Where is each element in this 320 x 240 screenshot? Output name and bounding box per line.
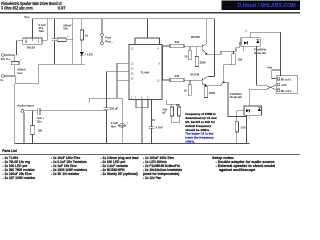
wire Q3 drain top [249, 32, 251, 37]
svg-text:10: 10 [184, 54, 188, 58]
svg-text:Free: Free [105, 35, 111, 39]
parts divider [0, 154, 300, 156]
svg-text:Tant: Tant [39, 29, 45, 33]
fuse F1 [11, 62, 19, 65]
wire free pins drop [101, 19, 103, 34]
svg-text:diode tab: diode tab [230, 95, 242, 99]
svg-text:against oscilloscope: against oscilloscope [219, 168, 255, 172]
mosfet Q3 box [241, 38, 260, 47]
wire crossover b [266, 85, 277, 90]
wire Q3 source down [257, 46, 266, 85]
svg-text:5 Ohm 35Z abc.com: 5 Ohm 35Z abc.com [1, 6, 33, 11]
capacitor C6 [118, 124, 125, 127]
svg-text:F1x0504x: F1x0504x [254, 47, 267, 51]
svg-text:diode tab: diode tab [254, 51, 266, 55]
svg-text:- 1x Sturdy DE (optional): - 1x Sturdy DE (optional) [101, 172, 138, 176]
wire Vcc rail [33, 19, 215, 38]
capacitor C4 input 1uF [24, 110, 38, 112]
wire Q1 emitter run [208, 43, 242, 54]
svg-text:D.Hood / NHLABS.COM: D.Hood / NHLABS.COM [238, 3, 297, 9]
svg-text:1k: 1k [85, 34, 89, 38]
svg-text:RD coil 1: RD coil 1 [281, 78, 292, 81]
pin audio input [21, 110, 24, 113]
header divider [0, 12, 300, 14]
wire Q4 gate [237, 109, 244, 111]
resistor R2 10k [32, 111, 34, 126]
wire In+ [4, 54, 14, 56]
svg-text:pF: pF [163, 111, 167, 115]
wire IC top bracket [135, 38, 160, 45]
wire R5 bottom [172, 116, 179, 123]
logo box [222, 0, 301, 10]
wire ground rail bottom [15, 143, 250, 145]
wire IC vcc drop [147, 19, 149, 38]
mosfet Q4 diodes [246, 109, 250, 112]
svg-text:25v: 25v [63, 27, 68, 31]
transistor Q1 [202, 44, 204, 51]
svg-text:V.07: V.07 [58, 6, 67, 11]
transistor Q2 [201, 78, 203, 85]
resistor R8 240 [170, 78, 184, 82]
svg-text:BC548: BC548 [191, 35, 200, 39]
svg-text:Vcc: Vcc [24, 15, 30, 19]
svg-text:10k: 10k [38, 128, 43, 132]
wire pin15 stub [117, 80, 129, 82]
wire R8 to Q2 [184, 79, 202, 81]
pin In+ [2, 54, 5, 57]
svg-text:fuse: fuse [17, 71, 23, 75]
svg-text:LED: LED [87, 52, 93, 56]
wire IC out upper [162, 45, 170, 47]
op-amp U1 TL494 [129, 45, 162, 100]
resistor R9 10 [189, 80, 191, 84]
wire out bus [162, 46, 164, 80]
junction gate1 [233, 51, 235, 53]
svg-text:R5: R5 [176, 103, 180, 107]
svg-text:- 1x 3K 1/4 resistor: - 1x 3K 1/4 resistor [51, 172, 80, 176]
wire In- [4, 75, 15, 77]
svg-text:100 µF: 100 µF [110, 107, 119, 111]
wire pin14 audio drop [106, 72, 108, 108]
wire R7 bottom [224, 65, 234, 83]
connector J1 [276, 76, 297, 94]
svg-text:78L05: 78L05 [27, 46, 36, 50]
resistor R10 3300 [205, 86, 207, 87]
wire C3 right leg [72, 19, 74, 65]
wire regulator output [42, 19, 47, 40]
capacitor C1 [151, 100, 153, 127]
resistor R7 100 [233, 51, 235, 53]
svg-text:TL494: TL494 [141, 71, 150, 75]
wire feedback bus [116, 63, 118, 98]
wire stub left [88, 98, 90, 103]
wire IC gnd pins [135, 100, 137, 108]
wire Q2 collector [207, 76, 215, 79]
svg-text:BC548: BC548 [191, 73, 200, 77]
capacitor C5 100uF [103, 107, 109, 109]
svg-text:10: 10 [184, 89, 188, 93]
wire ground rail top-left [39, 63, 85, 65]
svg-text:100: 100 [241, 126, 246, 130]
svg-text:C1: C1 [152, 118, 156, 122]
svg-text:3300: 3300 [200, 60, 207, 64]
wire Q4 drain up [249, 90, 265, 106]
wire audio shield drop [23, 112, 25, 143]
mosfet Q4 box [244, 106, 262, 115]
wire Q1 collector [206, 19, 208, 44]
pin free 2 [101, 42, 104, 45]
capacitor C7 [171, 104, 173, 107]
resistor R6 3300 [196, 47, 198, 57]
wire pin5 drop [166, 100, 179, 105]
capacitor C3 electrolytic body [58, 38, 67, 42]
wire divider drop [121, 98, 123, 143]
wire Q2 emitter run [207, 82, 247, 116]
svg-text:Parts List: Parts List [2, 149, 17, 153]
regulator U2 78L05 [23, 38, 42, 44]
svg-text:240: 240 [175, 40, 180, 44]
resistor R3 240 [170, 44, 184, 48]
wire In+ drop [14, 55, 16, 62]
wire rail drop 2 [214, 19, 216, 77]
wire In- return [15, 64, 38, 83]
svg-text:- 1x 12v Fan: - 1x 12v Fan [143, 176, 161, 180]
wire Q3 source stub [242, 46, 244, 51]
wire R3 to Q1 [184, 46, 203, 48]
capacitor C2 [54, 19, 56, 39]
wire pin14 stub [107, 71, 130, 73]
resistor R5 [178, 104, 180, 107]
wire Q4 source down [246, 115, 248, 143]
pin In- [2, 75, 5, 78]
wire pin13 stub [117, 62, 129, 64]
svg-text:3300: 3300 [209, 91, 216, 95]
wire fuse to In- node [14, 65, 16, 76]
resistor R11 100 [236, 110, 238, 121]
pin free 1 [101, 33, 104, 36]
svg-text:- 1x 22F 1/4W resistor: - 1x 22F 1/4W resistor [3, 176, 37, 180]
svg-text:25v: 25v [37, 119, 42, 123]
svg-text:BK coil 2: BK coil 2 [281, 90, 292, 93]
svg-text:4.7nF: 4.7nF [156, 126, 164, 130]
svg-text:240: 240 [175, 74, 180, 78]
wire In- ground drop [14, 83, 16, 143]
wire crossover a [266, 85, 277, 90]
svg-text:In-: In- [1, 78, 4, 82]
svg-text:Pins...: Pins... [105, 40, 113, 44]
resistor R1 1k [81, 19, 83, 30]
wire gnd bracket [136, 107, 148, 109]
mosfet Q3 diodes [244, 41, 248, 44]
svg-text:film: film [111, 124, 116, 128]
wire feedback run [89, 97, 122, 99]
svg-text:10kHz.: 10kHz. [185, 140, 195, 144]
svg-text:+12V: +12V [281, 84, 287, 87]
svg-text:100: 100 [238, 58, 243, 62]
wire gnd drop [141, 108, 143, 144]
svg-text:Audio Input: Audio Input [17, 104, 34, 108]
wire IC out lower [162, 79, 170, 81]
wire +V top run [250, 32, 280, 75]
junction emitter2 [223, 82, 225, 84]
svg-text:+Vin: +Vin [266, 65, 272, 69]
wire +Vin jog [272, 70, 281, 79]
wire free pins link [101, 36, 103, 41]
svg-text:12v In+: 12v In+ [1, 57, 11, 61]
LED D1 [80, 52, 84, 55]
wire regulator input [17, 41, 23, 55]
resistor R4 10 [189, 47, 191, 51]
note frequency text [185, 112, 217, 144]
